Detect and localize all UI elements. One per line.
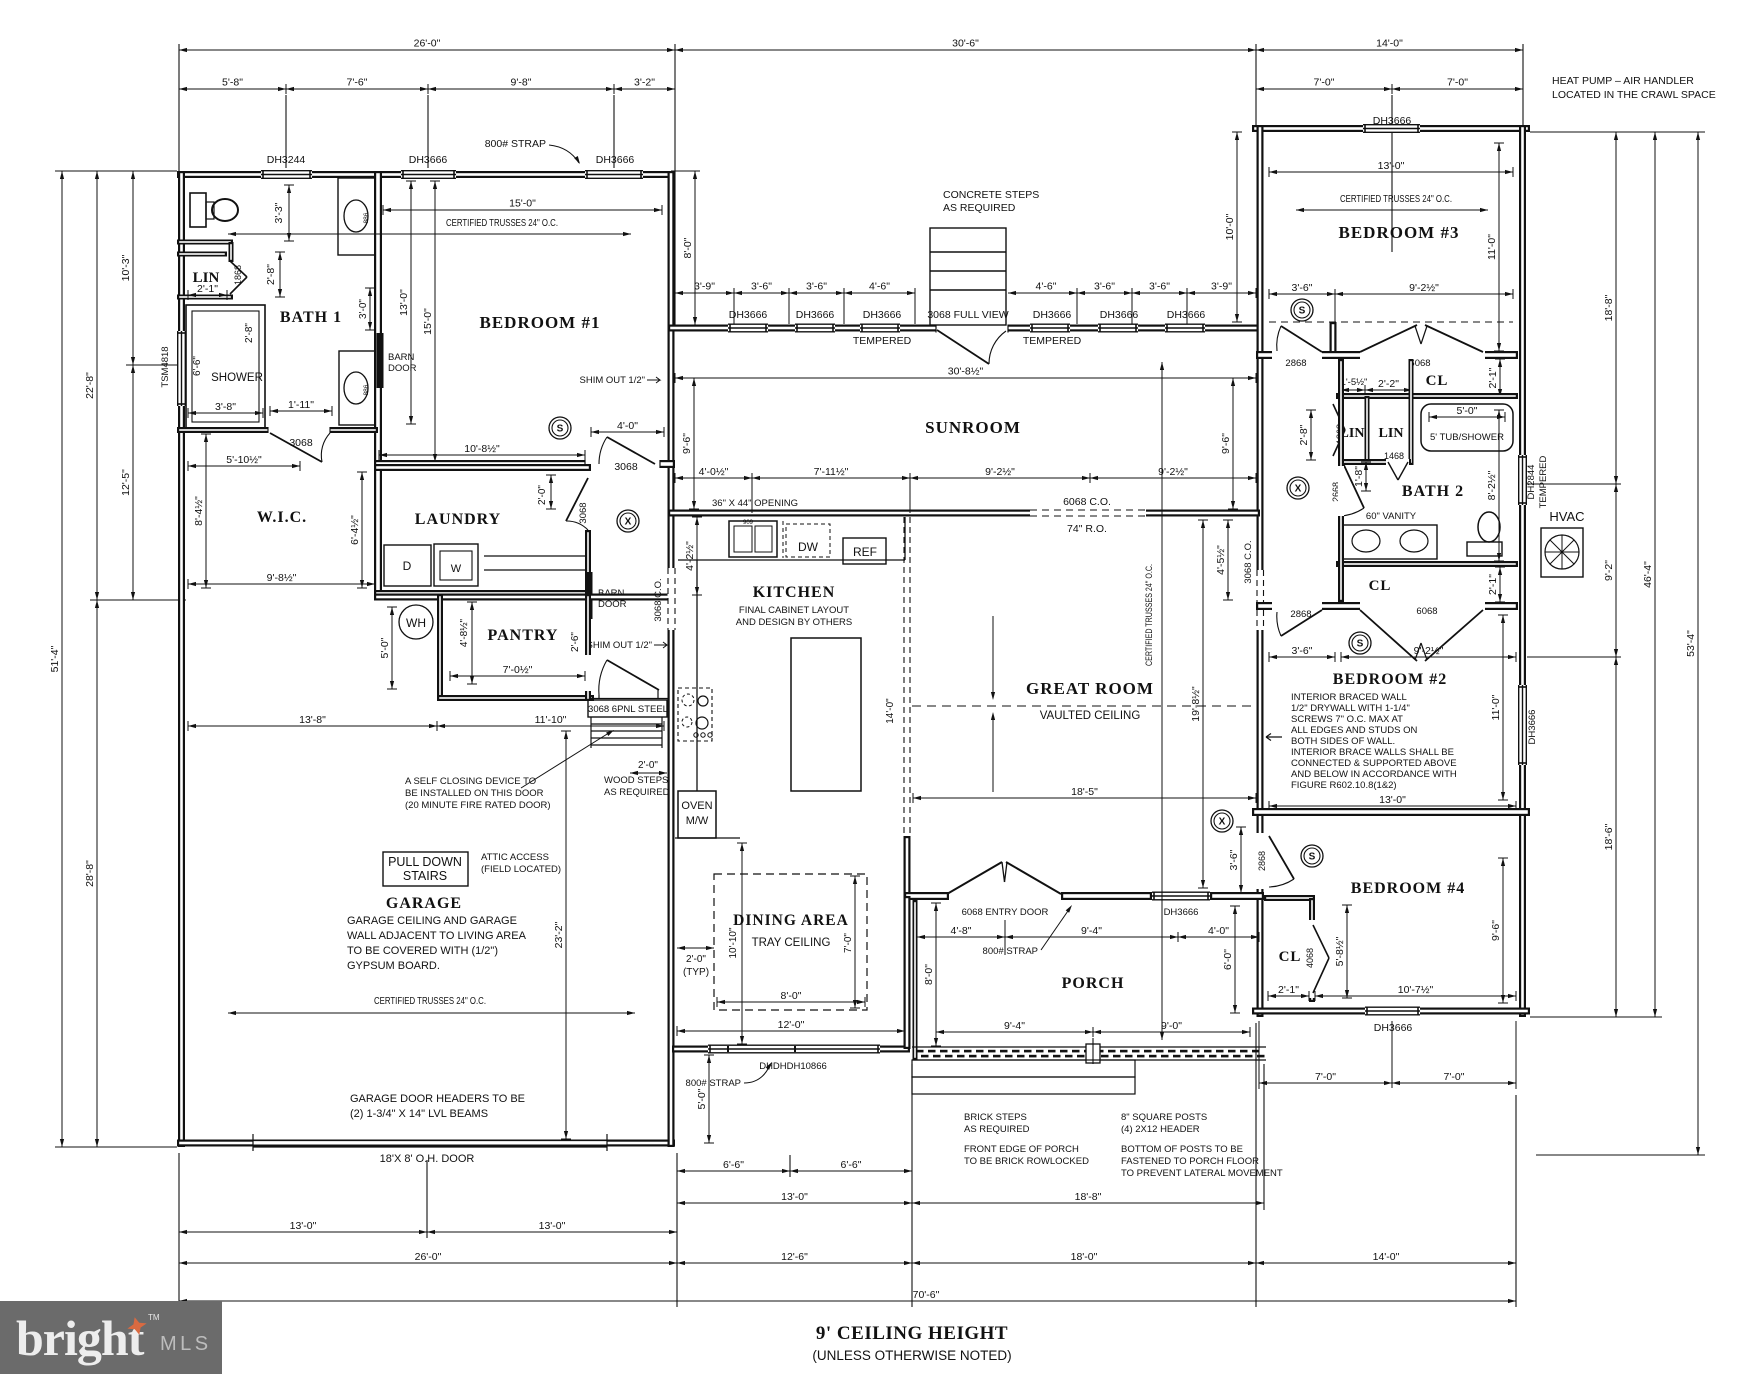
svg-text:800# STRAP: 800# STRAP [983, 946, 1038, 957]
svg-text:3'-9": 3'-9" [694, 281, 715, 293]
svg-text:9'-6": 9'-6" [1220, 433, 1232, 454]
svg-text:10'-0": 10'-0" [1224, 213, 1236, 240]
svg-text:6'-6": 6'-6" [192, 356, 203, 376]
svg-text:HVAC: HVAC [1549, 509, 1584, 524]
svg-text:10'-10": 10'-10" [728, 927, 739, 958]
svg-text:886: 886 [363, 384, 370, 395]
svg-text:TRAY CEILING: TRAY CEILING [752, 937, 831, 949]
svg-text:2'-8": 2'-8" [1298, 424, 1310, 445]
svg-text:CL: CL [1426, 373, 1449, 389]
svg-text:11'-0": 11'-0" [1490, 694, 1502, 720]
svg-text:5' TUB/SHOWER: 5' TUB/SHOWER [1430, 432, 1504, 443]
svg-text:BOTTOM OF POSTS TO BE: BOTTOM OF POSTS TO BE [1121, 1144, 1243, 1155]
svg-text:13'-8": 13'-8" [299, 714, 326, 726]
svg-text:14'-0": 14'-0" [1376, 38, 1403, 50]
svg-text:11'-10": 11'-10" [535, 714, 567, 726]
svg-text:BOTH SIDES OF WALL.: BOTH SIDES OF WALL. [1291, 736, 1395, 747]
svg-text:FRONT EDGE OF PORCH: FRONT EDGE OF PORCH [964, 1144, 1079, 1155]
svg-text:18'-0": 18'-0" [1071, 1251, 1098, 1263]
svg-text:15'-0": 15'-0" [422, 308, 434, 335]
svg-text:4'-0": 4'-0" [617, 420, 638, 432]
svg-text:6'-6": 6'-6" [723, 1159, 744, 1171]
svg-text:BEDROOM #4: BEDROOM #4 [1351, 880, 1465, 897]
svg-text:8'-2½": 8'-2½" [1486, 470, 1498, 500]
svg-text:9'-2½": 9'-2½" [1409, 282, 1439, 294]
svg-text:8'-0": 8'-0" [781, 990, 802, 1002]
svg-text:7'-0½": 7'-0½" [503, 664, 533, 676]
svg-text:AND BELOW IN ACCORDANCE WITH: AND BELOW IN ACCORDANCE WITH [1291, 769, 1457, 780]
svg-text:10'-3": 10'-3" [120, 254, 132, 281]
svg-text:3'-8": 3'-8" [215, 401, 236, 413]
svg-text:5'-0": 5'-0" [379, 637, 391, 658]
svg-text:M/W: M/W [686, 815, 709, 827]
svg-text:GARAGE DOOR HEADERS TO BE: GARAGE DOOR HEADERS TO BE [350, 1093, 525, 1105]
svg-text:KITCHEN: KITCHEN [753, 584, 836, 601]
svg-text:TEMPERED: TEMPERED [1538, 455, 1549, 508]
svg-text:GREAT ROOM: GREAT ROOM [1026, 679, 1154, 698]
svg-text:SHIM OUT 1/2": SHIM OUT 1/2" [587, 640, 653, 651]
svg-text:OVEN: OVEN [681, 800, 712, 812]
svg-text:2'-1": 2'-1" [1487, 574, 1499, 595]
svg-text:7'-0": 7'-0" [1444, 1071, 1465, 1083]
svg-text:MLS: MLS [160, 1333, 212, 1355]
svg-text:5'-8": 5'-8" [222, 77, 243, 89]
svg-text:1868: 1868 [233, 265, 243, 285]
svg-text:1/2" DRYWALL WITH 1-1/4": 1/2" DRYWALL WITH 1-1/4" [1291, 703, 1410, 714]
svg-text:6068: 6068 [1416, 606, 1437, 617]
svg-text:X: X [625, 517, 632, 528]
svg-text:4'-8½": 4'-8½" [459, 618, 470, 647]
svg-text:74" R.O.: 74" R.O. [1067, 523, 1107, 535]
svg-text:BATH 1: BATH 1 [280, 309, 342, 326]
svg-text:30'-8½": 30'-8½" [948, 366, 984, 378]
svg-text:DH3666: DH3666 [729, 309, 768, 321]
svg-text:10'-8½": 10'-8½" [464, 443, 500, 455]
svg-text:2'-0": 2'-0" [537, 485, 548, 505]
svg-text:PORCH: PORCH [1062, 975, 1125, 992]
svg-text:DH3666: DH3666 [1033, 309, 1072, 321]
svg-text:4'-6": 4'-6" [869, 281, 890, 293]
svg-text:DH3666: DH3666 [863, 309, 902, 321]
svg-text:1'-8": 1'-8" [1353, 466, 1365, 487]
svg-text:FASTENED TO PORCH FLOOR: FASTENED TO PORCH FLOOR [1121, 1156, 1259, 1167]
svg-text:GARAGE CEILING AND GARAGE: GARAGE CEILING AND GARAGE [347, 915, 517, 927]
svg-text:BEDROOM #3: BEDROOM #3 [1339, 223, 1460, 242]
svg-text:DH3666: DH3666 [796, 309, 835, 321]
svg-text:7'-0": 7'-0" [843, 933, 854, 953]
svg-text:BRICK STEPS: BRICK STEPS [964, 1112, 1027, 1123]
svg-text:3'-6": 3'-6" [1228, 849, 1240, 870]
svg-text:GYPSUM BOARD.: GYPSUM BOARD. [347, 960, 440, 972]
svg-text:7'-6": 7'-6" [347, 77, 368, 89]
svg-text:3'-2": 3'-2" [634, 77, 655, 89]
svg-text:A SELF CLOSING DEVICE TO: A SELF CLOSING DEVICE TO [405, 776, 536, 787]
svg-text:DH3666: DH3666 [1167, 309, 1206, 321]
svg-text:BATH 2: BATH 2 [1402, 483, 1464, 500]
svg-text:8'-4½": 8'-4½" [193, 496, 205, 526]
svg-text:9'-2": 9'-2" [1603, 560, 1615, 581]
svg-text:DW: DW [798, 540, 819, 554]
svg-text:9'-2½": 9'-2½" [1414, 645, 1444, 657]
svg-text:7'-0": 7'-0" [1314, 77, 1335, 89]
svg-text:S: S [1309, 852, 1316, 863]
svg-text:2'-8": 2'-8" [265, 264, 277, 285]
svg-text:AS REQUIRED: AS REQUIRED [943, 202, 1016, 214]
svg-text:909: 909 [743, 520, 754, 526]
svg-text:2'-6": 2'-6" [570, 632, 581, 652]
svg-text:DOOR: DOOR [598, 599, 627, 610]
svg-text:DH3666: DH3666 [1527, 710, 1538, 745]
svg-text:13'-0": 13'-0" [539, 1220, 566, 1232]
svg-text:(FIELD LOCATED): (FIELD LOCATED) [481, 864, 561, 875]
svg-text:TEMPERED: TEMPERED [1023, 335, 1082, 347]
svg-text:19'-8½": 19'-8½" [1190, 686, 1202, 722]
svg-text:6'-4½": 6'-4½" [349, 515, 361, 545]
svg-text:LOCATED IN THE CRAWL SPACE: LOCATED IN THE CRAWL SPACE [1552, 89, 1716, 101]
svg-text:6'-0": 6'-0" [1222, 949, 1234, 970]
svg-text:bright: bright [16, 1310, 145, 1366]
svg-text:2'-1": 2'-1" [1487, 367, 1499, 388]
svg-text:800# STRAP: 800# STRAP [686, 1078, 741, 1089]
svg-text:3068 FULL VIEW: 3068 FULL VIEW [927, 309, 1008, 321]
svg-text:4'-2½": 4'-2½" [684, 541, 696, 571]
svg-text:4'-0": 4'-0" [1208, 925, 1229, 937]
svg-text:3'-9": 3'-9" [1211, 281, 1232, 293]
svg-text:TM: TM [148, 1313, 160, 1322]
svg-text:ALL EDGES AND STUDS ON: ALL EDGES AND STUDS ON [1291, 725, 1417, 736]
svg-text:D: D [403, 559, 412, 573]
svg-text:1'-11": 1'-11" [288, 399, 314, 411]
svg-text:TEMPERED: TEMPERED [853, 335, 912, 347]
svg-text:9'-2½": 9'-2½" [985, 466, 1015, 478]
svg-text:5'-8½": 5'-8½" [1334, 936, 1346, 966]
svg-text:10'-7½": 10'-7½" [1398, 984, 1434, 996]
svg-text:DH3666: DH3666 [1164, 907, 1199, 918]
svg-text:HEAT PUMP – AIR HANDLER: HEAT PUMP – AIR HANDLER [1552, 75, 1694, 87]
svg-text:3'-0": 3'-0" [358, 299, 369, 319]
svg-text:15'-0": 15'-0" [509, 198, 536, 210]
svg-text:3'-6": 3'-6" [1292, 645, 1313, 657]
svg-text:5'-10½": 5'-10½" [226, 454, 262, 466]
svg-text:CONNECTED & SUPPORTED ABOVE: CONNECTED & SUPPORTED ABOVE [1291, 758, 1457, 769]
svg-text:7'-11½": 7'-11½" [814, 466, 849, 478]
svg-text:CERTIFIED TRUSSES 24" O.C.: CERTIFIED TRUSSES 24" O.C. [1144, 564, 1155, 666]
svg-text:STAIRS: STAIRS [403, 869, 447, 883]
svg-text:13'-0": 13'-0" [398, 289, 410, 316]
svg-text:DH3244: DH3244 [267, 154, 306, 166]
svg-text:26'-0": 26'-0" [415, 1251, 442, 1263]
svg-text:2868: 2868 [1285, 358, 1306, 369]
svg-text:9'-8": 9'-8" [511, 77, 532, 89]
svg-text:3'-3": 3'-3" [273, 202, 285, 223]
svg-text:2'-1": 2'-1" [197, 283, 218, 295]
svg-text:3068 6PNL STEEL: 3068 6PNL STEEL [588, 704, 668, 715]
svg-text:1'-5½": 1'-5½" [1341, 377, 1368, 388]
svg-text:22'-8": 22'-8" [84, 372, 96, 399]
svg-text:INTERIOR BRACE WALLS SHALL BE: INTERIOR BRACE WALLS SHALL BE [1291, 747, 1454, 758]
svg-text:PANTRY: PANTRY [488, 627, 559, 644]
svg-text:CERTIFIED TRUSSES 24" O.C.: CERTIFIED TRUSSES 24" O.C. [374, 995, 486, 1007]
svg-text:2868: 2868 [1290, 609, 1311, 620]
svg-text:W: W [451, 563, 462, 575]
svg-text:PULL DOWN: PULL DOWN [388, 855, 462, 869]
svg-text:DH3666: DH3666 [596, 154, 635, 166]
svg-text:53'-4": 53'-4" [1685, 630, 1697, 657]
svg-text:18'-6": 18'-6" [1603, 823, 1615, 850]
svg-text:4'-0½": 4'-0½" [699, 466, 729, 478]
svg-text:BEDROOM #1: BEDROOM #1 [480, 313, 601, 332]
svg-text:4'-6": 4'-6" [1036, 281, 1057, 293]
svg-text:CERTIFIED TRUSSES 24" O.C.: CERTIFIED TRUSSES 24" O.C. [1340, 193, 1452, 205]
svg-text:WALL ADJACENT TO LIVING AREA: WALL ADJACENT TO LIVING AREA [347, 930, 527, 942]
svg-text:INTERIOR BRACED WALL: INTERIOR BRACED WALL [1291, 692, 1407, 703]
svg-text:X: X [1295, 484, 1302, 495]
svg-text:FIGURE R602.10.8(1&2): FIGURE R602.10.8(1&2) [1291, 780, 1397, 791]
svg-text:26'-0": 26'-0" [414, 38, 441, 50]
svg-text:TO BE BRICK ROWLOCKED: TO BE BRICK ROWLOCKED [964, 1156, 1089, 1167]
svg-text:X: X [1219, 817, 1226, 828]
svg-text:DH3666: DH3666 [1374, 1022, 1413, 1034]
svg-text:CONCRETE STEPS: CONCRETE STEPS [943, 189, 1039, 201]
svg-text:DH3666: DH3666 [409, 154, 448, 166]
svg-text:DH3666: DH3666 [1100, 309, 1139, 321]
svg-text:WH: WH [406, 616, 426, 630]
svg-text:8'-0": 8'-0" [682, 237, 694, 258]
svg-text:800# STRAP: 800# STRAP [485, 138, 546, 150]
svg-text:2'-0": 2'-0" [638, 760, 658, 771]
svg-text:GARAGE: GARAGE [386, 895, 462, 912]
svg-text:2'-2": 2'-2" [1378, 378, 1399, 390]
svg-text:S: S [1357, 639, 1364, 650]
svg-text:51'-4": 51'-4" [49, 645, 61, 672]
svg-text:AS REQUIRED: AS REQUIRED [604, 787, 670, 798]
svg-text:SUNROOM: SUNROOM [925, 418, 1021, 437]
svg-text:9'-6": 9'-6" [681, 433, 693, 454]
svg-text:3068: 3068 [578, 502, 589, 523]
svg-text:9'-4": 9'-4" [1081, 925, 1102, 937]
svg-text:AS REQUIRED: AS REQUIRED [964, 1124, 1030, 1135]
svg-text:VAULTED CEILING: VAULTED CEILING [1040, 710, 1141, 722]
svg-text:FINAL CABINET LAYOUT: FINAL CABINET LAYOUT [739, 605, 849, 616]
svg-text:18'-8": 18'-8" [1075, 1191, 1102, 1203]
svg-text:DH2844: DH2844 [1526, 465, 1537, 500]
svg-text:LAUNDRY: LAUNDRY [415, 511, 501, 528]
svg-text:BEDROOM #2: BEDROOM #2 [1333, 671, 1447, 688]
svg-text:46'-4": 46'-4" [1642, 561, 1654, 588]
svg-text:REF: REF [853, 545, 877, 559]
svg-text:9' CEILING HEIGHT: 9' CEILING HEIGHT [816, 1323, 1008, 1344]
svg-text:5'-0": 5'-0" [696, 1088, 708, 1109]
svg-text:14'-0": 14'-0" [1373, 1251, 1400, 1263]
svg-text:7'-0": 7'-0" [1447, 77, 1468, 89]
svg-text:28'-8": 28'-8" [84, 860, 96, 887]
svg-text:12'-6": 12'-6" [781, 1251, 808, 1263]
svg-text:TO PREVENT LATERAL MOVEMENT: TO PREVENT LATERAL MOVEMENT [1121, 1168, 1283, 1179]
svg-text:4068: 4068 [1305, 948, 1315, 968]
svg-text:13'-0": 13'-0" [1378, 160, 1405, 172]
svg-text:2'-0": 2'-0" [686, 954, 706, 965]
svg-text:6'-6": 6'-6" [841, 1159, 862, 1171]
svg-text:18'-8": 18'-8" [1603, 294, 1615, 321]
svg-text:12'-5": 12'-5" [120, 469, 132, 496]
svg-text:(TYP): (TYP) [683, 967, 709, 978]
svg-text:ATTIC ACCESS: ATTIC ACCESS [481, 852, 549, 863]
svg-text:DINING AREA: DINING AREA [733, 912, 849, 929]
svg-text:36" X 44" OPENING: 36" X 44" OPENING [712, 498, 798, 509]
svg-text:AND DESIGN BY OTHERS: AND DESIGN BY OTHERS [736, 617, 853, 628]
svg-text:3'-6": 3'-6" [751, 281, 772, 293]
svg-text:3068: 3068 [289, 437, 313, 449]
svg-text:9'-2½": 9'-2½" [1158, 466, 1188, 478]
svg-text:9'-0": 9'-0" [1161, 1020, 1182, 1032]
svg-text:9'-4": 9'-4" [1004, 1020, 1025, 1032]
svg-text:9'-8½": 9'-8½" [267, 572, 297, 584]
svg-text:3'-6": 3'-6" [1292, 282, 1313, 294]
svg-text:(2) 1-3/4" X 14" LVL BEAMS: (2) 1-3/4" X 14" LVL BEAMS [350, 1108, 488, 1120]
svg-text:4'-8": 4'-8" [951, 925, 972, 937]
svg-text:13'-0": 13'-0" [781, 1191, 808, 1203]
svg-text:LIN: LIN [1379, 426, 1404, 441]
svg-text:60" VANITY: 60" VANITY [1366, 511, 1417, 522]
svg-text:SCREWS 7" O.C. MAX AT: SCREWS 7" O.C. MAX AT [1291, 714, 1403, 725]
svg-text:5'-0": 5'-0" [1457, 405, 1478, 417]
svg-text:11'-0": 11'-0" [1486, 234, 1498, 260]
svg-text:S: S [1299, 306, 1306, 317]
svg-text:TO BE COVERED WITH (1/2"): TO BE COVERED WITH (1/2") [347, 945, 498, 957]
svg-text:DOOR: DOOR [388, 363, 417, 374]
svg-text:2868: 2868 [1257, 851, 1267, 871]
svg-text:S: S [557, 424, 564, 435]
svg-text:3'-6": 3'-6" [806, 281, 827, 293]
svg-text:14'-0": 14'-0" [885, 698, 896, 724]
svg-text:SHIM OUT 1/2": SHIM OUT 1/2" [580, 375, 646, 386]
svg-text:9'-6": 9'-6" [1490, 920, 1502, 941]
svg-text:7'-0": 7'-0" [1315, 1071, 1336, 1083]
svg-text:BE INSTALLED ON THIS DOOR: BE INSTALLED ON THIS DOOR [405, 788, 544, 799]
svg-text:(20 MINUTE FIRE RATED DOOR): (20 MINUTE FIRE RATED DOOR) [405, 800, 551, 811]
svg-text:30'-6": 30'-6" [952, 38, 979, 50]
svg-text:CERTIFIED TRUSSES 24" O.C.: CERTIFIED TRUSSES 24" O.C. [446, 217, 558, 229]
svg-text:70'-6": 70'-6" [913, 1289, 940, 1301]
svg-text:(4) 2X12 HEADER: (4) 2X12 HEADER [1121, 1124, 1200, 1135]
svg-text:SHOWER: SHOWER [211, 372, 263, 384]
svg-text:2'-8": 2'-8" [244, 323, 255, 343]
svg-text:4'-5½": 4'-5½" [1215, 545, 1227, 575]
svg-text:12'-0": 12'-0" [778, 1019, 805, 1031]
svg-text:CL: CL [1279, 949, 1302, 965]
svg-text:886: 886 [363, 212, 370, 223]
svg-text:3068: 3068 [614, 461, 638, 473]
svg-text:18'-5": 18'-5" [1071, 786, 1098, 798]
svg-text:3068 C.O.: 3068 C.O. [1243, 540, 1254, 583]
svg-text:WOOD STEPS: WOOD STEPS [604, 775, 668, 786]
svg-text:TSM4818: TSM4818 [160, 346, 171, 387]
svg-text:6068 ENTRY DOOR: 6068 ENTRY DOOR [962, 907, 1049, 918]
svg-text:8'-0": 8'-0" [923, 964, 935, 985]
svg-text:8" SQUARE POSTS: 8" SQUARE POSTS [1121, 1112, 1207, 1123]
svg-text:3'-6": 3'-6" [1149, 281, 1170, 293]
svg-text:3068 C.O.: 3068 C.O. [653, 578, 664, 621]
svg-text:(UNLESS OTHERWISE NOTED): (UNLESS OTHERWISE NOTED) [812, 1348, 1011, 1363]
svg-text:23'-2": 23'-2" [553, 921, 565, 948]
svg-text:3'-6": 3'-6" [1094, 281, 1115, 293]
svg-text:1468: 1468 [1384, 451, 1404, 461]
svg-text:CL: CL [1369, 578, 1392, 594]
svg-text:13'-0": 13'-0" [1379, 794, 1406, 806]
svg-text:W.I.C.: W.I.C. [257, 509, 307, 526]
svg-text:2'-1": 2'-1" [1278, 984, 1299, 996]
svg-text:6068 C.O.: 6068 C.O. [1063, 496, 1111, 508]
svg-text:13'-0": 13'-0" [290, 1220, 317, 1232]
